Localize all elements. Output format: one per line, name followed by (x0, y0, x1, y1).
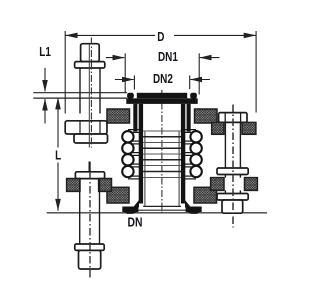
bolt B3 hatched flange section upper-right (242, 122, 256, 134)
bellows top bead hump right (190, 93, 197, 99)
bolt B2 hatched nut left (67, 179, 80, 192)
dimension DN2 extension line right (189, 75, 191, 89)
bolt B3 shaft lower (225, 190, 240, 193)
bellows wall flare right (185, 200, 191, 207)
bellows top bead hump left (127, 93, 134, 99)
dimension DN1 left arrow (106, 55, 125, 61)
bellows bore bottom line (143, 205, 181, 207)
bellows bottom flange end cap left (122, 207, 138, 214)
bolt B1 shaft (80, 68, 100, 114)
bolt B3 middle washer (217, 168, 248, 175)
bolt B3 hatched flange section lower-left (211, 178, 224, 191)
svg-text:L: L (55, 149, 61, 162)
bellows convolution loops right (183, 130, 202, 179)
dimension DN2 left arrow (115, 77, 134, 83)
bottom baseline (47, 212, 267, 214)
dimension D line right segment with arrowhead (174, 33, 256, 39)
svg-text:DN2: DN2 (153, 73, 173, 86)
bellows convolution loops left (122, 130, 141, 179)
bolt B1 nut row (74, 134, 108, 143)
bellows bottom flange end cap right (186, 207, 202, 214)
dimension L1 upper arrow pointing down (42, 68, 48, 92)
bellows bore edge line right (178, 132, 180, 207)
dimension DN1 extension line right (198, 53, 200, 94)
bellows bore crest lines (143, 137, 181, 172)
bolt B1 centerline (89, 38, 91, 148)
bellows outer wall left (133, 104, 137, 132)
bolt B2 head (79, 250, 101, 269)
svg-text:DN: DN (128, 215, 143, 229)
svg-text:L1: L1 (39, 46, 51, 59)
bolt B1 washer (75, 62, 105, 68)
bellows wall flare left (133, 200, 139, 207)
svg-text:D: D (157, 31, 164, 44)
svg-text:DN1: DN1 (158, 51, 178, 64)
bolt B2 bottom washer (75, 244, 104, 250)
bolt B2 top washer (75, 172, 104, 179)
hatched flange block top-right (195, 109, 218, 123)
dimension D extension line right (255, 31, 257, 113)
bellows outer wall right (187, 104, 191, 132)
bolt B2 centerline (89, 172, 91, 278)
dimension DN2 extension line left (133, 75, 135, 89)
bellows inner wall left (139, 104, 143, 204)
bolt B3 shaft middle (225, 175, 240, 178)
bolt B3 head row (219, 113, 247, 123)
bellows bottom flange face line (136, 209, 188, 211)
dimension L lower arrow pointing down (55, 163, 61, 211)
hatched flange block bottom-left (107, 187, 129, 203)
bellows bore edge line left (144, 132, 146, 207)
bellows centerline (161, 90, 163, 214)
bolt B3 hatched flange section lower-right (245, 178, 258, 191)
bolt B2 bottom-left: stud tip line (88, 162, 90, 173)
bolt B3 nut (222, 200, 243, 213)
bolt B1 shaft lines through washer row (80, 121, 100, 134)
dimension DN1 extension line left (124, 53, 126, 92)
bolt B1 head (81, 44, 100, 62)
bolt B2 shaft (80, 179, 100, 244)
bellows inner wall right (181, 104, 185, 204)
bolt B3 hatched flange section upper-left (212, 122, 224, 134)
bolt B1 nut washer row (65, 121, 107, 134)
dimension DN1 right arrow (199, 55, 219, 61)
bellows bore root lines (143, 131, 181, 178)
dimension L1 lower arrow pointing up (42, 99, 48, 124)
bellows top flange bar (126, 98, 197, 104)
hatched flange block top-left (107, 109, 130, 123)
bolt B3 shaft upper (225, 122, 240, 168)
bolt B2 hatched nut right (99, 179, 112, 192)
dimension DN2 right arrow (190, 77, 210, 83)
hatched flange block bottom-right (194, 187, 217, 203)
dimension D line left segment with arrowhead (65, 33, 155, 39)
dimension D extension line left (64, 31, 66, 114)
bolt B3 lower washer (217, 194, 248, 201)
bolt B3 centerline (232, 105, 234, 228)
bellows top rubber face band (137, 93, 187, 99)
top mating flange plate lines (left side) (33, 93, 127, 98)
dimension L upper arrow pointing up (55, 97, 61, 147)
